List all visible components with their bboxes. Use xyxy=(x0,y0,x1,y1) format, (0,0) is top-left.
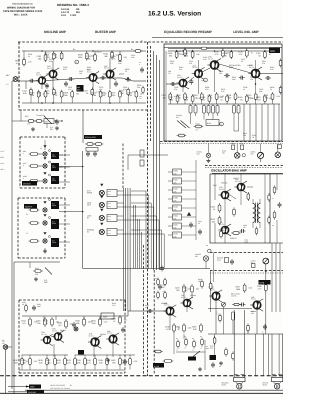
svg-text:ADJ: ADJ xyxy=(197,153,200,156)
svg-text:2SB 381: 2SB 381 xyxy=(221,182,228,185)
svg-text:2SB205: 2SB205 xyxy=(161,302,167,305)
svg-text:OSCILLATOR BIAS AMP: OSCILLATOR BIAS AMP xyxy=(211,169,247,173)
svg-text:AMPLIF: AMPLIF xyxy=(25,206,33,209)
svg-text:HEAD ON BOARD: HEAD ON BOARD xyxy=(50,384,66,387)
svg-text:0.05: 0.05 xyxy=(203,58,206,61)
svg-text:R219: R219 xyxy=(196,122,200,125)
svg-text:1076: 1076 xyxy=(259,282,265,285)
svg-text:10: 10 xyxy=(55,56,57,59)
svg-text:560: 560 xyxy=(169,54,172,57)
svg-text:0.05: 0.05 xyxy=(104,320,108,323)
svg-text:560: 560 xyxy=(76,93,79,96)
svg-text:30: 30 xyxy=(39,94,41,97)
svg-text:10: 10 xyxy=(28,55,30,58)
svg-text:56 171: 56 171 xyxy=(47,67,52,70)
svg-text:REC: REC xyxy=(44,281,49,284)
svg-text:MIC : JACK: MIC : JACK xyxy=(14,13,28,16)
svg-text:100K: 100K xyxy=(63,94,68,97)
svg-text:10: 10 xyxy=(227,52,229,55)
svg-text:0.05: 0.05 xyxy=(221,90,224,93)
svg-text:100K: 100K xyxy=(78,56,83,59)
svg-text:10: 10 xyxy=(86,92,88,95)
svg-text:560: 560 xyxy=(124,318,127,321)
svg-text:DISTOR: DISTOR xyxy=(23,183,31,186)
svg-text:C-WF: C-WF xyxy=(70,14,77,17)
svg-text:2SB202: 2SB202 xyxy=(60,329,66,332)
svg-text:R130: R130 xyxy=(173,197,177,200)
svg-text:R140: R140 xyxy=(173,206,177,209)
svg-text:560: 560 xyxy=(219,72,222,75)
svg-text:30: 30 xyxy=(240,99,242,102)
svg-text:J1: J1 xyxy=(40,147,42,150)
svg-text:MG: MG xyxy=(76,11,80,14)
svg-text:30: 30 xyxy=(140,93,142,96)
svg-text:250: 250 xyxy=(222,229,225,232)
svg-text:C7: C7 xyxy=(26,232,28,235)
svg-text:2SB206: 2SB206 xyxy=(190,294,196,297)
svg-text:R170: R170 xyxy=(173,233,177,236)
svg-text:12-8: 12-8 xyxy=(61,14,66,17)
svg-text:MIC: MIC xyxy=(6,74,10,77)
svg-text:56 171: 56 171 xyxy=(36,74,41,77)
svg-text:2SB203: 2SB203 xyxy=(100,333,106,336)
svg-text:R160: R160 xyxy=(173,224,177,227)
svg-text:0.05: 0.05 xyxy=(99,361,103,364)
svg-text:0.05: 0.05 xyxy=(23,92,27,95)
svg-text:LINE: LINE xyxy=(30,386,35,389)
svg-text:.05: .05 xyxy=(243,226,245,229)
svg-text:SW: SW xyxy=(2,342,5,345)
svg-text:DRAWING NO. 1588-3: DRAWING NO. 1588-3 xyxy=(57,3,89,7)
svg-text:AMP: AMP xyxy=(103,316,108,319)
svg-text:30: 30 xyxy=(210,97,212,100)
svg-text:30: 30 xyxy=(26,360,28,363)
svg-text:MIC/LINE AMP: MIC/LINE AMP xyxy=(44,30,67,34)
svg-text:R3: R3 xyxy=(26,213,28,216)
svg-text:.01: .01 xyxy=(252,136,254,139)
svg-text:1076: 1076 xyxy=(270,50,276,53)
svg-text:30: 30 xyxy=(258,54,260,57)
svg-text:56 171: 56 171 xyxy=(208,57,213,60)
svg-text:56 171: 56 171 xyxy=(89,335,94,338)
svg-text:56 171: 56 171 xyxy=(107,332,112,335)
svg-text:10: 10 xyxy=(243,88,245,91)
svg-text:0.05: 0.05 xyxy=(227,97,231,100)
svg-text:56 171: 56 171 xyxy=(219,188,224,191)
svg-text:560: 560 xyxy=(179,68,182,71)
svg-text:56 171: 56 171 xyxy=(177,76,182,79)
svg-text:100K: 100K xyxy=(86,57,91,60)
svg-text:560: 560 xyxy=(162,286,165,289)
svg-text:10: 10 xyxy=(251,52,253,55)
svg-text:0.05: 0.05 xyxy=(39,361,43,364)
svg-text:R150: R150 xyxy=(173,215,177,218)
svg-text:0.05: 0.05 xyxy=(193,328,197,331)
svg-text:30: 30 xyxy=(270,88,272,91)
svg-text:10: 10 xyxy=(55,94,57,97)
svg-text:16.2 U.S. Version: 16.2 U.S. Version xyxy=(148,11,201,18)
svg-text:560: 560 xyxy=(124,56,127,59)
svg-text:56 171: 56 171 xyxy=(235,180,240,183)
svg-text:30: 30 xyxy=(241,60,243,63)
svg-text:EQUALIZED RECORD PREAMP: EQUALIZED RECORD PREAMP xyxy=(164,30,213,34)
svg-text:56 171: 56 171 xyxy=(181,296,186,299)
svg-text:56 171: 56 171 xyxy=(52,329,57,332)
svg-text:10: 10 xyxy=(269,53,271,56)
svg-text:EQUALIZER: EQUALIZER xyxy=(85,136,96,139)
svg-text:100K: 100K xyxy=(184,54,189,57)
svg-text:Teberay Mandarin on: Teberay Mandarin on xyxy=(12,3,33,6)
svg-text:10: 10 xyxy=(45,322,47,325)
svg-text:560: 560 xyxy=(248,97,251,100)
svg-text:560: 560 xyxy=(38,57,41,60)
svg-text:R107: R107 xyxy=(35,267,39,270)
svg-text:0.05: 0.05 xyxy=(257,99,261,102)
svg-text:2SB178: 2SB178 xyxy=(230,237,236,240)
svg-text:R100: R100 xyxy=(173,170,177,173)
svg-text:560: 560 xyxy=(22,361,25,364)
svg-text:R120: R120 xyxy=(173,188,177,191)
svg-text:56 171: 56 171 xyxy=(192,66,197,69)
svg-text:10: 10 xyxy=(177,328,179,331)
svg-text:0.05: 0.05 xyxy=(34,360,38,363)
svg-text:BUFFER AMP: BUFFER AMP xyxy=(95,30,117,34)
svg-text:56 171: 56 171 xyxy=(104,67,109,70)
svg-text:LEVEL IND. AMP: LEVEL IND. AMP xyxy=(233,30,259,34)
svg-text:SPKR: SPKR xyxy=(87,192,93,195)
svg-text:J-1: J-1 xyxy=(6,83,9,86)
svg-text:GROUND: GROUND xyxy=(28,391,37,394)
svg-text:30: 30 xyxy=(125,70,127,73)
svg-text:B+: B+ xyxy=(141,40,143,43)
svg-text:0.05: 0.05 xyxy=(134,360,138,363)
svg-text:R110: R110 xyxy=(173,179,177,182)
svg-text:56 171: 56 171 xyxy=(251,298,256,301)
svg-text:56 171: 56 171 xyxy=(41,333,46,336)
svg-text:ARE VIEWED AS SHOWN: ARE VIEWED AS SHOWN xyxy=(50,387,71,390)
svg-text:100K: 100K xyxy=(236,288,241,291)
svg-text:560: 560 xyxy=(104,55,107,58)
svg-text:2SB177: 2SB177 xyxy=(233,177,239,180)
svg-text:560: 560 xyxy=(91,54,94,57)
svg-text:B+: B+ xyxy=(70,384,72,387)
